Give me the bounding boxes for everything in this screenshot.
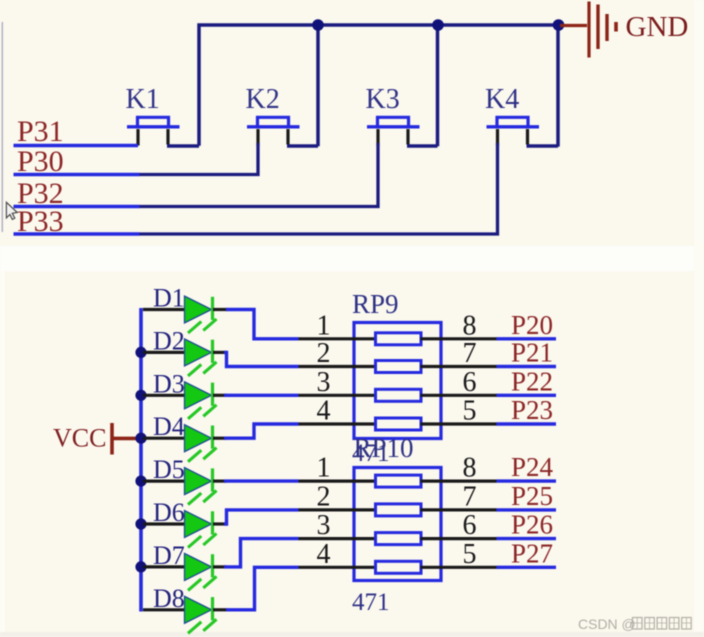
- mouse cursor: [6, 202, 17, 219]
- LED D2 cathode bar: [211, 340, 214, 363]
- svg-text:5: 5: [463, 396, 477, 427]
- svg-text:P31: P31: [17, 115, 64, 148]
- LED D5 hatch marks: [188, 491, 217, 505]
- LED D4 triangle: [185, 425, 212, 452]
- LED D5 triangle: [185, 468, 212, 495]
- junction dot bus-D7: [135, 561, 146, 572]
- pin 4 of RP9: [299, 422, 377, 425]
- LED D6: [143, 498, 299, 548]
- pin 2 of RP9: [299, 365, 377, 368]
- svg-text:K4: K4: [485, 84, 519, 115]
- svg-text:2: 2: [317, 481, 331, 512]
- LED D5 cathode bar: [211, 468, 214, 491]
- junction dot rail-K4/GND: [553, 19, 565, 31]
- wire left-edge vertical net stub: [1, 22, 3, 232]
- svg-text:P25: P25: [511, 481, 553, 511]
- LED D8 cathode bar: [211, 597, 214, 620]
- LED D8: [143, 567, 299, 633]
- svg-text:P23: P23: [511, 395, 553, 425]
- LED D7 hatch marks: [188, 576, 217, 590]
- resistor RP9-4: [376, 418, 422, 430]
- wire K3 left leg down to P32 line: [139, 143, 378, 207]
- resistor RP10-3: [376, 533, 422, 545]
- svg-text:P27: P27: [511, 538, 553, 568]
- resistor RP10-1: [376, 475, 422, 487]
- svg-text:2: 2: [317, 338, 331, 369]
- svg-text:6: 6: [463, 367, 477, 398]
- junction dot bus-D5: [135, 476, 146, 487]
- pin 1 of K2 (left leg): [256, 129, 259, 146]
- resistor pack RP10: [299, 433, 557, 581]
- pin 1 of K3 (left leg): [376, 129, 379, 146]
- pin 4 of RP10: [299, 566, 377, 569]
- node P23: [497, 422, 557, 425]
- LED D3 cathode bar: [211, 383, 214, 406]
- node P24: [497, 479, 557, 482]
- pin cathode stub D4: [213, 437, 227, 440]
- node P27: [497, 566, 557, 569]
- wire D2 to resistor pack: [224, 352, 299, 366]
- pushbutton K1: [126, 84, 200, 146]
- pin 1 of RP10: [299, 480, 377, 483]
- pin cathode stub D2: [213, 351, 227, 354]
- node P31: [14, 115, 139, 148]
- LED D2 triangle: [185, 339, 212, 366]
- node P32: [14, 177, 140, 210]
- wire D6 to resistor pack: [224, 510, 299, 524]
- pin 3 of RP9: [299, 394, 377, 397]
- pin 6 of RP9: [421, 394, 497, 397]
- LED D3: [143, 369, 299, 419]
- LED D1 cathode bar: [211, 297, 214, 320]
- svg-text:P26: P26: [511, 510, 553, 540]
- wire D4 to resistor pack: [224, 424, 299, 438]
- LED D4 hatch marks: [188, 448, 217, 462]
- svg-text:4: 4: [317, 396, 331, 427]
- LED D3 hatch marks: [188, 405, 217, 419]
- pin anode wire D8: [143, 608, 184, 611]
- svg-text:K2: K2: [246, 84, 280, 115]
- pin anode wire D6: [143, 522, 184, 525]
- pin cathode stub D8: [213, 608, 227, 611]
- pin 2 of RP10: [299, 508, 377, 511]
- resistor RP9-2: [376, 361, 422, 373]
- wire D8 to resistor pack: [226, 567, 299, 610]
- LED D6 cathode bar: [211, 511, 214, 534]
- pin 2 of K2 (right leg): [286, 129, 289, 145]
- svg-text:1: 1: [317, 453, 331, 484]
- wire K2 riser: [316, 24, 320, 147]
- junction dot bus-D4: [135, 433, 146, 444]
- svg-text:4: 4: [317, 539, 331, 570]
- pin 1 of RP9: [299, 337, 377, 340]
- svg-text:K3: K3: [366, 84, 400, 115]
- wire D3 to resistor pack: [224, 394, 299, 397]
- svg-text:P22: P22: [511, 366, 553, 396]
- pin 7 of RP9: [421, 365, 497, 368]
- LED D5: [143, 455, 299, 505]
- svg-text:RP9: RP9: [352, 289, 399, 319]
- LED D8 hatch marks: [188, 619, 217, 633]
- wire K1 right leg to rail riser: [167, 144, 199, 147]
- pin 6 of RP10: [421, 537, 497, 540]
- pin 2 of K4 (right leg): [526, 129, 529, 145]
- LED D4 cathode bar: [211, 426, 214, 449]
- LED D2: [143, 326, 299, 376]
- svg-text:8: 8: [463, 453, 477, 484]
- resistor pack RP9: [299, 289, 557, 439]
- LED D6 hatch marks: [188, 534, 217, 548]
- wire D1 to resistor pack: [226, 310, 299, 339]
- pin cathode stub D7: [213, 565, 227, 568]
- resistor RP10-2: [376, 504, 422, 516]
- svg-text:P24: P24: [511, 452, 554, 482]
- LED D8 triangle: [185, 596, 212, 623]
- wire VCC bus vertical: [139, 308, 143, 612]
- pushbutton K2: [246, 84, 319, 146]
- wire K2 left leg down to P30 line: [139, 143, 258, 175]
- LED D1 triangle: [185, 296, 212, 323]
- resistor RP9-3: [376, 389, 422, 401]
- pin cathode stub D6: [213, 522, 227, 525]
- pushbutton K3: [366, 84, 438, 146]
- wire GND rail with K1 riser: [199, 25, 560, 146]
- svg-text:7: 7: [463, 481, 477, 512]
- svg-text:6: 6: [463, 510, 477, 541]
- LED D7: [143, 539, 299, 591]
- pin cathode stub D5: [213, 480, 227, 483]
- pin anode wire D2: [143, 351, 184, 354]
- junction dot bus-D6: [135, 518, 146, 529]
- wire P33 label line: [14, 232, 140, 236]
- LED D7 triangle: [185, 553, 212, 580]
- node P33: [14, 205, 140, 238]
- svg-text:3: 3: [317, 510, 331, 541]
- wire K4 left leg down to P33 line: [139, 143, 498, 234]
- pin 3 of RP10: [299, 537, 377, 540]
- junction dot bus-D3: [135, 390, 146, 401]
- wire P30 label line: [14, 173, 140, 177]
- watermark: [578, 616, 691, 632]
- node P21: [497, 365, 557, 368]
- pin 1 of K1 (left leg): [136, 129, 139, 146]
- pin anode wire D7: [143, 565, 184, 568]
- pin cathode stub D1: [213, 308, 227, 311]
- wire P32 label line: [14, 205, 140, 209]
- node P22: [497, 394, 557, 397]
- ground: [560, 2, 688, 58]
- pin anode wire D1: [143, 308, 184, 311]
- svg-text:5: 5: [463, 539, 477, 570]
- svg-text:P20: P20: [511, 310, 553, 340]
- pushbutton K4: [485, 84, 558, 146]
- svg-text:RP10: RP10: [354, 433, 414, 463]
- node P26: [497, 537, 557, 540]
- svg-text:8: 8: [463, 310, 477, 341]
- pin 7 of RP10: [421, 508, 497, 511]
- svg-text:K1: K1: [126, 84, 160, 115]
- pin anode wire D3: [143, 394, 184, 397]
- pin 2 of K1 (right leg): [166, 129, 169, 145]
- svg-text:P21: P21: [511, 338, 553, 368]
- node P25: [497, 508, 557, 511]
- LED D6 triangle: [185, 511, 212, 538]
- pin 5 of RP10: [421, 566, 497, 569]
- pin cathode stub D3: [213, 394, 227, 397]
- pin anode wire D4: [143, 437, 184, 440]
- pin 5 of RP9: [421, 422, 497, 425]
- junction dot rail-K2: [312, 19, 324, 31]
- node P20: [497, 337, 557, 340]
- wire D7 to resistor pack: [224, 539, 299, 567]
- LED D7 cathode bar: [211, 554, 214, 577]
- node P30: [14, 145, 140, 178]
- wire P31 label line: [14, 144, 139, 148]
- wire K3 right leg to rail riser: [407, 144, 438, 147]
- wire K2 right leg to rail riser: [287, 144, 318, 147]
- LED D2 hatch marks: [188, 362, 217, 376]
- svg-text:471: 471: [352, 589, 390, 616]
- svg-text:3: 3: [317, 367, 331, 398]
- resistor RP10-4: [376, 561, 422, 573]
- pin 2 of K3 (right leg): [406, 129, 409, 145]
- resistor RP9-1: [376, 333, 422, 345]
- pin 8 of RP10: [421, 480, 497, 483]
- pin 1 of K4 (left leg): [496, 129, 499, 146]
- wire K4 riser: [556, 24, 560, 147]
- LED D1 hatch marks: [188, 319, 217, 333]
- svg-text:GND: GND: [626, 11, 689, 43]
- svg-text:CSDN @: CSDN @: [578, 616, 636, 632]
- pin anode wire D5: [143, 480, 184, 483]
- LED D3 triangle: [185, 382, 212, 409]
- pin 8 of RP9: [421, 337, 497, 340]
- wire K3 riser: [436, 24, 440, 147]
- junction dot rail-K3: [432, 19, 444, 31]
- svg-text:1: 1: [317, 310, 331, 341]
- svg-text:7: 7: [463, 338, 477, 369]
- wire K4 right leg to rail riser: [527, 144, 559, 147]
- wire D5 to resistor pack: [224, 479, 299, 482]
- power VCC: [53, 423, 139, 455]
- LED D4: [143, 412, 299, 462]
- LED D1: [143, 284, 299, 339]
- svg-text:VCC: VCC: [53, 424, 106, 453]
- junction dot bus-D2: [135, 347, 146, 358]
